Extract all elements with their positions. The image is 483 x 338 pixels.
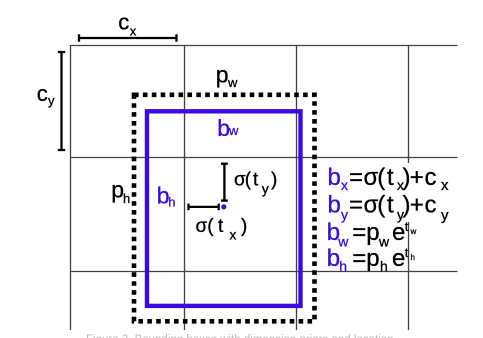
svg-text:c: c	[118, 9, 129, 34]
blue predicted box	[147, 111, 301, 306]
svg-text:e: e	[392, 219, 405, 246]
svg-text:+: +	[410, 164, 424, 191]
svg-text:Figure 2. Bounding boxes with: Figure 2. Bounding boxes with dimension …	[86, 334, 394, 338]
svg-text:x: x	[230, 228, 237, 243]
svg-text:h: h	[123, 191, 130, 206]
grid vertical line 3	[296, 45, 298, 330]
svg-text:t: t	[253, 170, 259, 191]
sigma(t_x) horizontal measure	[189, 204, 219, 211]
label b_w	[217, 115, 239, 141]
svg-text:w: w	[228, 123, 239, 138]
svg-text:p: p	[366, 219, 379, 246]
equation b_y = sigma(t_y)+c_y	[328, 192, 450, 225]
sigma(t_y) vertical measure	[221, 164, 228, 201]
label sigma(t_y)	[234, 170, 277, 197]
svg-text:p: p	[366, 245, 379, 272]
svg-text:=: =	[352, 219, 366, 246]
svg-text:y: y	[441, 207, 449, 224]
blue center dot	[221, 204, 226, 209]
svg-text:): )	[271, 170, 277, 191]
svg-text:(: (	[245, 170, 252, 191]
svg-text:t: t	[405, 219, 409, 234]
svg-text:x: x	[341, 177, 348, 193]
dotted prior box	[134, 95, 315, 321]
c_x measure bracket	[79, 34, 177, 41]
svg-text:t: t	[218, 216, 224, 237]
svg-text:(: (	[377, 192, 385, 219]
svg-text:b: b	[328, 192, 341, 219]
svg-text:): )	[241, 216, 247, 237]
label c_x	[118, 9, 137, 38]
svg-text:c: c	[425, 164, 437, 191]
equation b_x = sigma(t_x)+c_x	[328, 164, 450, 194]
svg-text:x: x	[441, 177, 449, 194]
svg-text:b: b	[327, 245, 340, 272]
svg-text:y: y	[48, 93, 55, 108]
equation b_w = p_w e^t_w	[327, 219, 417, 250]
label sigma(t_x)	[196, 216, 248, 243]
svg-text:t: t	[405, 245, 409, 260]
grid vertical line 4 upper segment	[408, 45, 410, 163]
svg-text:(: (	[377, 164, 385, 191]
grid horizontal line bottom	[70, 271, 458, 273]
svg-text:w: w	[378, 234, 390, 250]
svg-text:(: (	[207, 216, 214, 237]
svg-text:σ: σ	[364, 164, 379, 191]
svg-text:σ: σ	[196, 216, 208, 237]
equation b_h = p_h e^t_h	[327, 245, 415, 274]
svg-text:h: h	[168, 194, 175, 209]
svg-text:e: e	[392, 245, 405, 272]
label b_h	[157, 182, 176, 209]
label p_w	[216, 62, 238, 90]
grid vertical line 2	[184, 45, 186, 330]
svg-text:=: =	[349, 192, 363, 219]
svg-text:t: t	[387, 192, 394, 219]
grid horizontal line middle	[70, 157, 458, 159]
svg-text:p: p	[216, 62, 229, 88]
svg-text:y: y	[262, 181, 269, 197]
label p_h	[111, 177, 130, 206]
label c_y	[37, 81, 55, 108]
c_y measure bracket	[58, 52, 65, 150]
svg-text:=: =	[352, 245, 366, 272]
svg-text:c: c	[425, 192, 437, 219]
grid vertical line 4 lower segment	[408, 222, 410, 330]
svg-text:y: y	[341, 207, 348, 223]
svg-text:b: b	[328, 164, 341, 191]
svg-text:x: x	[130, 24, 137, 39]
svg-text:w: w	[227, 75, 238, 90]
svg-text:h: h	[411, 253, 415, 262]
svg-text:=: =	[349, 164, 363, 191]
svg-text:w: w	[410, 227, 417, 236]
svg-text:σ: σ	[364, 192, 379, 219]
svg-text:h: h	[380, 258, 388, 274]
svg-text:+: +	[410, 192, 424, 219]
grid horizontal line top	[70, 45, 458, 47]
svg-text:h: h	[339, 258, 347, 274]
grid vertical line 1	[70, 45, 72, 330]
svg-text:t: t	[387, 164, 394, 191]
svg-text:c: c	[37, 81, 48, 106]
